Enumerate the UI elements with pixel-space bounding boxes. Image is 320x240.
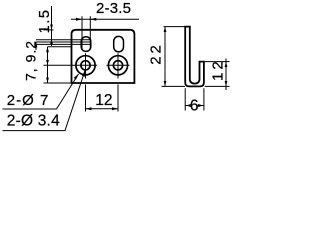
front view plate outline [72, 30, 135, 83]
slot S1 top-left obround [81, 37, 91, 52]
arrow stem at x36 [35, 42, 37, 50]
dimension 2-3.5 dim line [71, 18, 139, 20]
dimension 12 side arrows [225, 62, 228, 87]
hole H2 inner circle (Ø3.4) [113, 61, 122, 70]
extension lines trio to slot S1 [36, 40, 91, 45]
slot S2 top-right obround [114, 36, 124, 52]
extension line at slot bottom level [48, 46, 73, 48]
extension line bottom edge to left [44, 82, 72, 84]
dimension 22 dim line [164, 27, 166, 87]
dimension 6 arrows [185, 104, 204, 107]
dimension 12 side dim line [225, 59, 227, 91]
svg-text:1.5: 1.5 [37, 8, 53, 33]
svg-text:12: 12 [95, 92, 112, 109]
SIDE VIEW hook outline [185, 27, 204, 87]
dimension 12 side bottom extension [205, 85, 230, 87]
svg-text:2-Ø 3.4: 2-Ø 3.4 [7, 112, 60, 129]
hole H1 inner circle (Ø3.4) [81, 61, 90, 70]
dimension 22 arrows [164, 27, 167, 87]
dimension 1.5 dim line [51, 6, 53, 46]
dimension 22/bottom extension line [162, 85, 186, 87]
hole H2 outer circle (Ø7) [108, 56, 127, 75]
hole H2 crosshair [107, 53, 130, 78]
dimension 12 arrows [86, 107, 119, 110]
dimension 6 dim line [185, 105, 204, 107]
svg-text:2-3.5: 2-3.5 [96, 0, 131, 17]
leader line for 2-Ø3.4 [3, 71, 86, 131]
dimension 12 side top extension [205, 61, 230, 63]
svg-text:6: 6 [190, 98, 199, 115]
dimension 1.5 arrows [50, 25, 53, 45]
svg-text:22: 22 [147, 42, 164, 65]
dimension 12 extension lines below plate [86, 85, 119, 112]
dimension 6 extension lines [185, 88, 204, 110]
leader line for 2-Ø7 [3, 74, 79, 109]
dimension 22 extension top [164, 26, 187, 28]
dimension 1.5 top extension [44, 29, 54, 31]
dimension 12 dim line [86, 108, 119, 110]
extension line hole center to left [44, 64, 75, 66]
svg-text:7, 9.2: 7, 9.2 [22, 40, 38, 81]
hole H1 crosshair [74, 53, 97, 78]
hole H1 outer circle (Ø7) [76, 56, 95, 75]
arrows on 7/9.2 dim line [46, 47, 49, 83]
svg-text:12: 12 [210, 58, 227, 81]
dimension 7 / 9.2 dim line [47, 47, 49, 83]
dimension 2-3.5 extension lines [82, 16, 90, 49]
dimension 2-3.5 arrows [76, 18, 96, 21]
svg-text:2-Ø 7: 2-Ø 7 [7, 92, 50, 109]
